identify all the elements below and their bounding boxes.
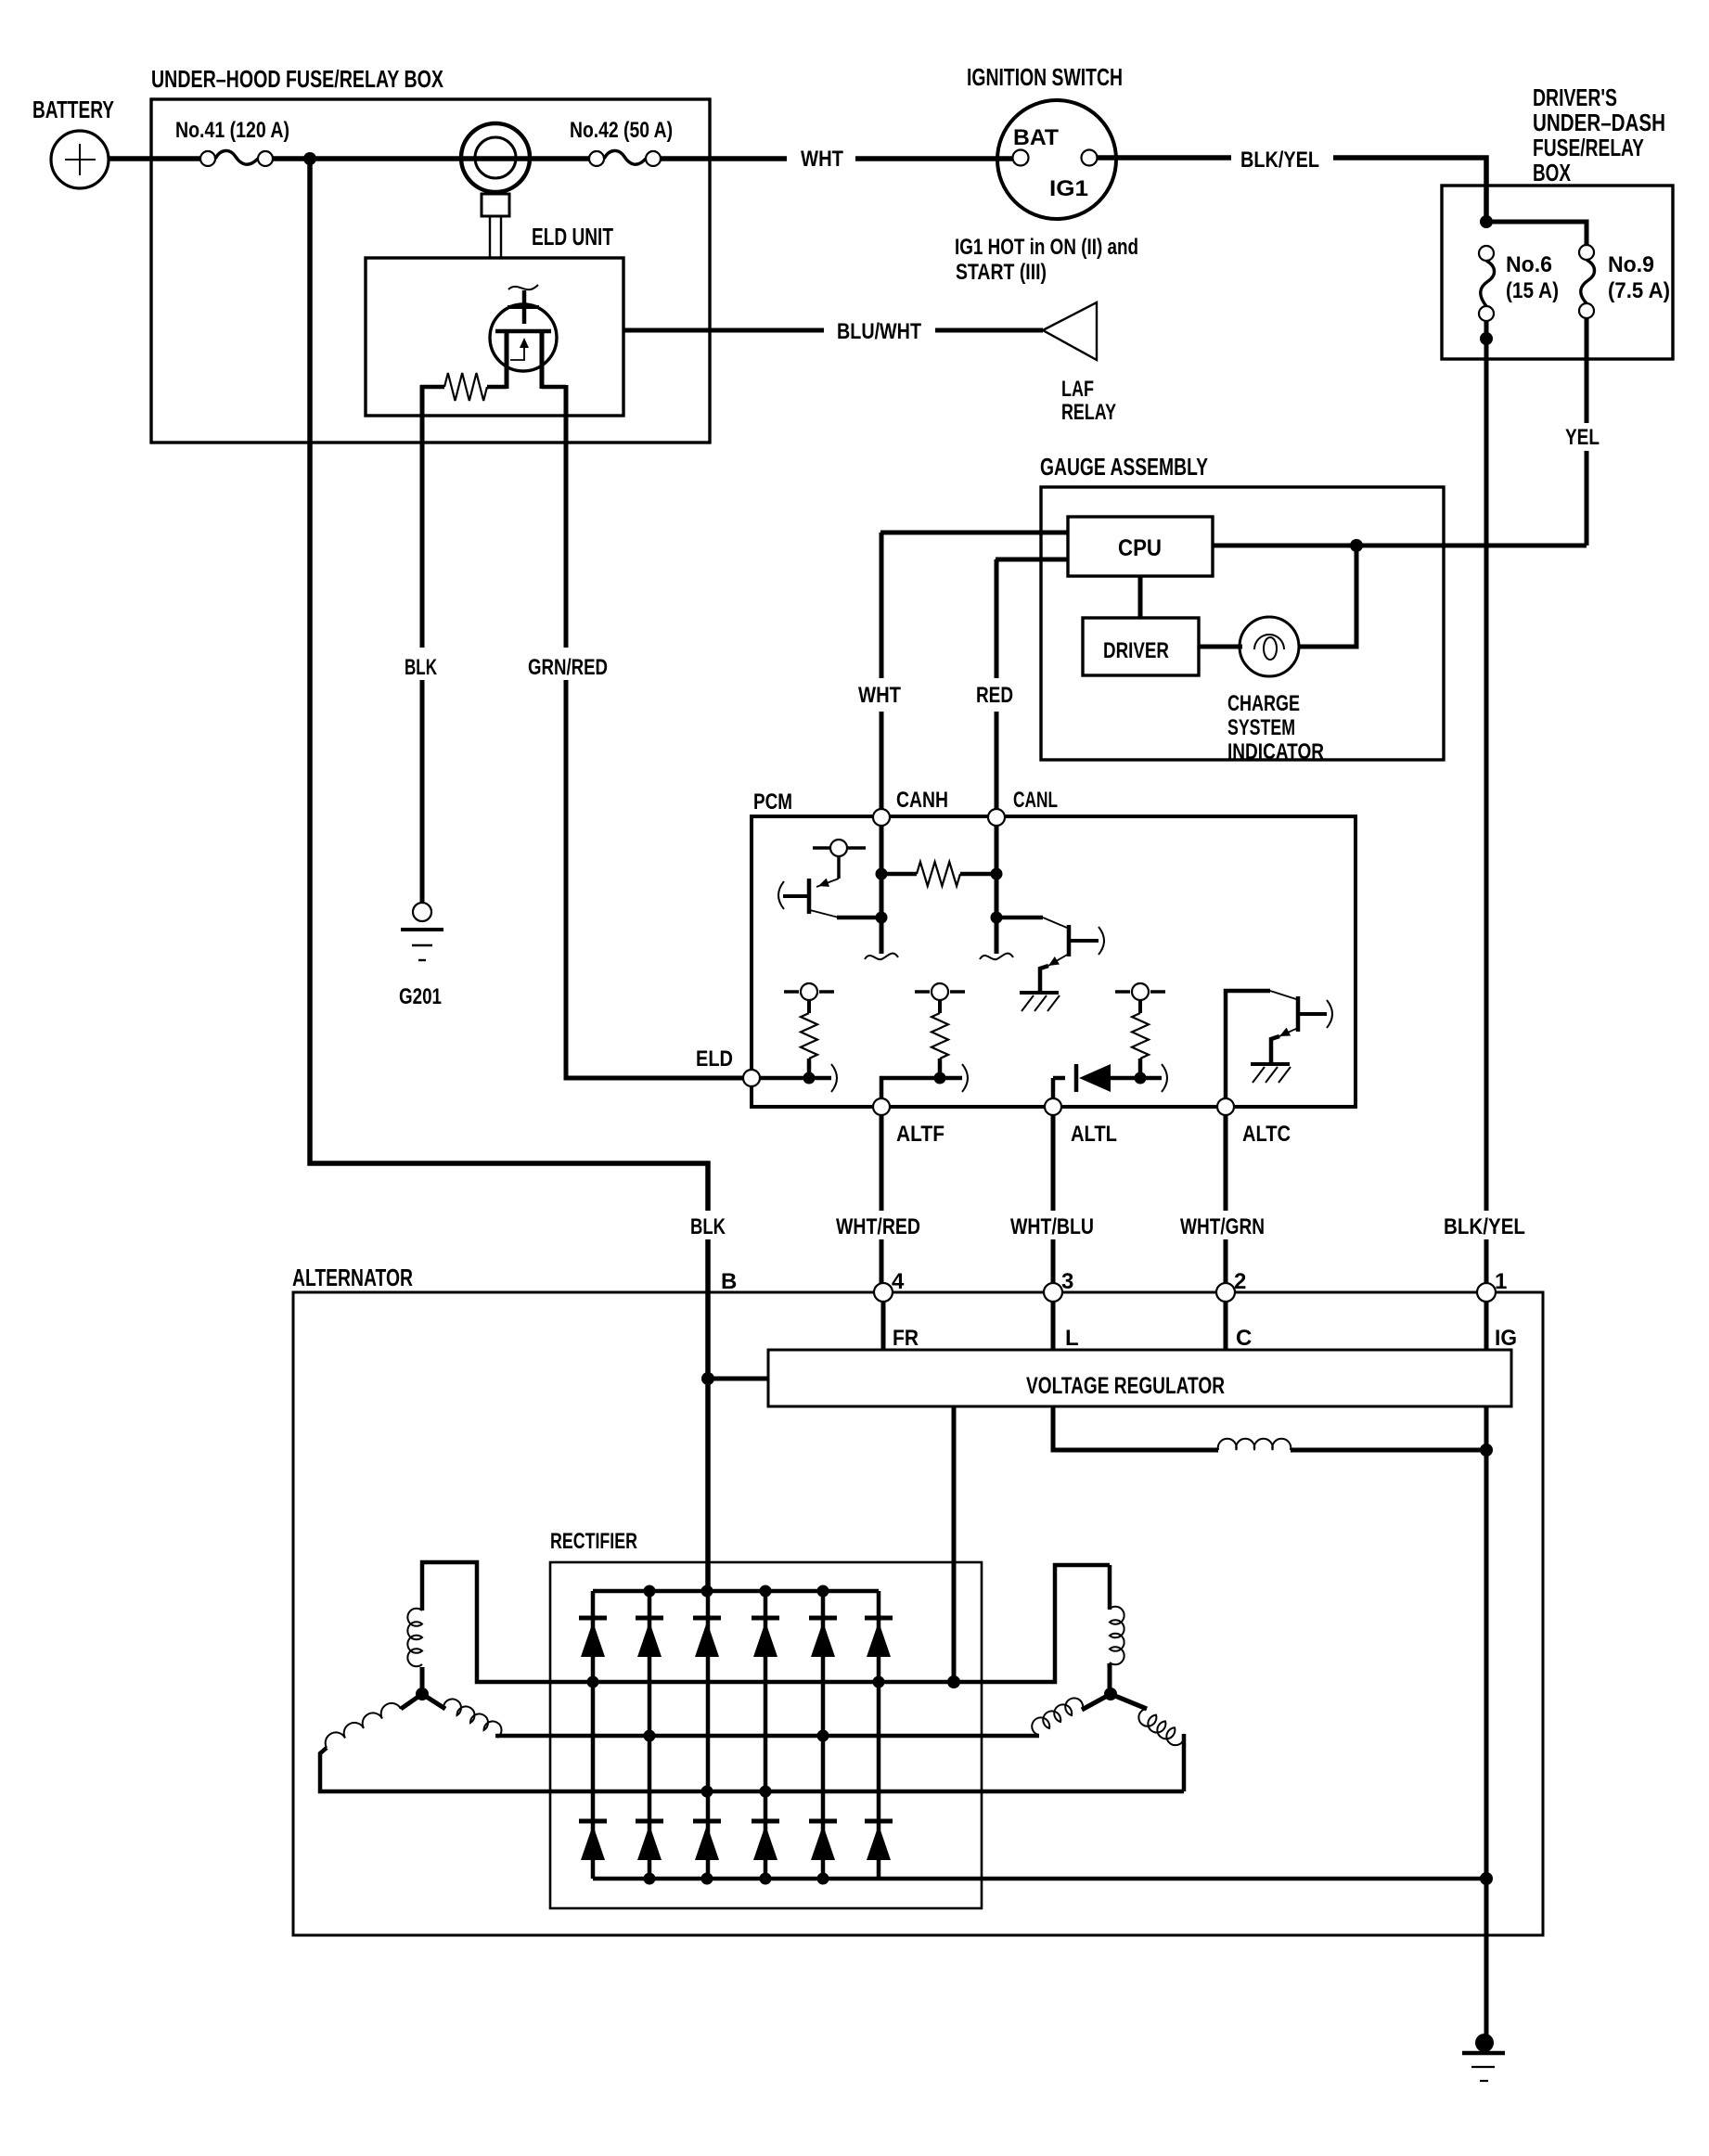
svg-text:L: L bbox=[1065, 1326, 1079, 1351]
transistor Q3 (ALTC) bbox=[1226, 991, 1270, 1097]
svg-text:DRIVER'S: DRIVER'S bbox=[1533, 83, 1617, 111]
transistor Q1 (CANH driver) bbox=[837, 856, 841, 879]
wire regulator to field coil bbox=[1053, 1406, 1218, 1450]
svg-text:(15 A): (15 A) bbox=[1506, 278, 1559, 303]
connector ALTL bbox=[1045, 1098, 1061, 1115]
wire BLK/YEL to driver box corner bbox=[1333, 158, 1486, 219]
svg-text:BLK/YEL: BLK/YEL bbox=[1444, 1214, 1525, 1239]
svg-text:WHT/GRN: WHT/GRN bbox=[1180, 1214, 1265, 1239]
diode D1 at ALTL bbox=[1051, 1078, 1056, 1097]
wire IG line down to ground bus bbox=[1484, 1406, 1489, 1879]
left stator coil C bbox=[401, 1694, 422, 1709]
svg-text:3: 3 bbox=[1061, 1269, 1073, 1294]
svg-text:BLK/YEL: BLK/YEL bbox=[1240, 148, 1319, 173]
svg-text:No.6: No.6 bbox=[1506, 252, 1552, 277]
diode D10 (lower row col 3) bbox=[693, 1819, 721, 1824]
wire field coil to IG line bbox=[1291, 1448, 1486, 1453]
svg-text:1: 1 bbox=[1495, 1269, 1507, 1294]
charge system indicator bulb bbox=[1240, 617, 1299, 676]
diode D5 (upper row col 4) bbox=[752, 1616, 779, 1621]
rectifier diode column 5 bbox=[821, 1591, 826, 1879]
junction dot below fuse No.6 bbox=[1480, 332, 1493, 345]
junction dot bottom bus bbox=[644, 1873, 656, 1885]
driver's under-dash fuse/relay box bbox=[1442, 186, 1673, 359]
wire IG1 to BLK/YEL label bbox=[1097, 155, 1231, 160]
left stator coil A bbox=[407, 1609, 422, 1667]
fuse No.41 (120 A) bbox=[200, 151, 215, 166]
wire fuse No.42 to WHT label bbox=[661, 156, 787, 161]
svg-text:No.42 (50 A): No.42 (50 A) bbox=[570, 118, 673, 143]
ELD MOSFET right leg bbox=[540, 331, 545, 389]
DRIVER box bbox=[1083, 618, 1199, 675]
svg-text:BATTERY: BATTERY bbox=[32, 96, 114, 123]
pin stub C bbox=[1224, 1302, 1228, 1350]
junction dot row3 col3 bbox=[701, 1786, 713, 1798]
wire BLU/WHT to LAF relay bbox=[935, 328, 1043, 333]
diode D7 (upper row col 6) bbox=[865, 1616, 893, 1621]
svg-text:CANH: CANH bbox=[896, 788, 948, 813]
resistor in ELD unit bbox=[487, 385, 507, 390]
right stator coil C bbox=[1182, 1734, 1187, 1791]
wire stator B row (row 2) bbox=[495, 1734, 1039, 1739]
svg-text:DRIVER: DRIVER bbox=[1103, 638, 1169, 663]
diode D13 (lower row col 6) bbox=[865, 1819, 893, 1824]
wire to chassis ground bbox=[1484, 1879, 1489, 2040]
svg-text:VOLTAGE REGULATOR: VOLTAGE REGULATOR bbox=[1026, 1373, 1225, 1399]
pin 3 bbox=[1044, 1283, 1062, 1302]
fuse No.9 (7.5 A) bbox=[1579, 245, 1594, 260]
svg-text:FUSE/RELAY: FUSE/RELAY bbox=[1533, 134, 1644, 161]
connector ELD on PCM edge bbox=[743, 1070, 760, 1086]
svg-text:IGNITION SWITCH: IGNITION SWITCH bbox=[967, 63, 1123, 91]
wire battery junction down to alternator B bbox=[310, 159, 708, 1211]
wire GRN/RED bbox=[564, 416, 569, 648]
ignition switch circle bbox=[997, 100, 1116, 219]
svg-text:BOX: BOX bbox=[1533, 159, 1571, 186]
wire CPU to DRIVER bbox=[1138, 576, 1143, 618]
svg-text:YEL: YEL bbox=[1565, 425, 1600, 450]
wire fuse No.6 down through box bbox=[1484, 321, 1489, 1211]
svg-text:LAF: LAF bbox=[1061, 377, 1094, 402]
junction dot top bus bbox=[644, 1585, 656, 1598]
pin stub L bbox=[1051, 1302, 1056, 1350]
svg-text:ALTL: ALTL bbox=[1071, 1122, 1117, 1147]
svg-text:IG1: IG1 bbox=[1049, 176, 1088, 201]
diode D2 (upper row col 1) bbox=[579, 1616, 607, 1621]
wire battery to fuse No.41 bbox=[109, 156, 201, 161]
connector ALTC bbox=[1217, 1098, 1234, 1115]
gauge assembly box bbox=[1041, 487, 1444, 760]
rectifier top bus bbox=[593, 1589, 879, 1594]
junction dot field-IG bbox=[1480, 1444, 1493, 1457]
svg-text:CANL: CANL bbox=[1013, 788, 1058, 813]
rectifier diode column 3 bbox=[706, 1591, 711, 1879]
svg-text:INDICATOR: INDICATOR bbox=[1227, 739, 1324, 764]
svg-text:BLK: BLK bbox=[690, 1214, 726, 1239]
junction dot above fuse No.6 bbox=[1480, 215, 1493, 228]
pin 2 bbox=[1216, 1283, 1235, 1302]
LAF relay triangle bbox=[1043, 302, 1097, 360]
wire branch to fuse No.9 bbox=[1486, 222, 1587, 245]
svg-text:WHT: WHT bbox=[801, 147, 843, 172]
svg-text:No.41 (120 A): No.41 (120 A) bbox=[175, 118, 289, 143]
pull-up resistor R1 with connector bbox=[784, 990, 799, 994]
junction dot top bus bbox=[701, 1585, 713, 1598]
svg-text:(7.5 A): (7.5 A) bbox=[1608, 278, 1670, 303]
rectifier diode column 2 bbox=[648, 1591, 652, 1879]
svg-text:2: 2 bbox=[1234, 1269, 1246, 1294]
junction dot CPU output bbox=[1350, 539, 1363, 552]
pull-up resistor R3 with connector bbox=[1115, 990, 1130, 994]
diode D4 (upper row col 3) bbox=[693, 1616, 721, 1621]
svg-text:ELD UNIT: ELD UNIT bbox=[532, 223, 613, 250]
pin stub FR bbox=[881, 1302, 886, 1350]
diode D6 (upper row col 5) bbox=[809, 1616, 837, 1621]
wire ELD resistor to BLK bbox=[420, 385, 425, 416]
connector CANL bbox=[988, 809, 1005, 826]
diode D3 (upper row col 2) bbox=[636, 1616, 663, 1621]
junction dot row2 col5 bbox=[817, 1730, 829, 1742]
rectifier diode column 6 bbox=[877, 1591, 881, 1879]
svg-text:ALTERNATOR: ALTERNATOR bbox=[292, 1264, 413, 1291]
svg-text:START (III): START (III) bbox=[956, 260, 1047, 285]
rectifier box bbox=[550, 1562, 982, 1908]
junction dot CANL resistor bbox=[991, 868, 1003, 880]
ground G101 junction dot bbox=[1475, 2034, 1494, 2052]
svg-text:UNDER–DASH: UNDER–DASH bbox=[1533, 109, 1665, 136]
under-hood fuse/relay box bbox=[151, 99, 710, 443]
wire YEL to CPU output corner bbox=[1585, 451, 1589, 545]
svg-text:CPU: CPU bbox=[1118, 535, 1162, 561]
terminal IG1 bbox=[1082, 150, 1098, 166]
ground symbol bbox=[1462, 2051, 1505, 2056]
junction dot row1 col1 bbox=[587, 1676, 599, 1688]
junction dot bottom bus bbox=[817, 1873, 829, 1885]
wire WHT to ignition switch BAT bbox=[855, 156, 1013, 161]
ELD current sensor ring bbox=[461, 123, 530, 192]
wire junction to fuse No.42 (through ELD ring) bbox=[310, 156, 589, 161]
junction dot top bus bbox=[817, 1585, 829, 1598]
svg-text:RELAY: RELAY bbox=[1061, 400, 1116, 425]
pin stub IG bbox=[1484, 1302, 1489, 1350]
svg-text:GAUGE ASSEMBLY: GAUGE ASSEMBLY bbox=[1040, 453, 1208, 481]
wire ELD source to GRN/RED bbox=[542, 385, 566, 390]
junction dot R3-ALTL bbox=[1135, 1072, 1147, 1084]
svg-text:FR: FR bbox=[893, 1326, 919, 1351]
wire BLK bbox=[420, 416, 425, 648]
battery B+ terminal bbox=[51, 131, 109, 188]
ELD MOSFET drain bar bbox=[508, 305, 539, 309]
right stator coil B bbox=[1032, 1698, 1083, 1735]
connector CANH bbox=[873, 809, 890, 826]
wire WHT vertical bbox=[880, 533, 884, 678]
left stator star point bbox=[416, 1688, 429, 1700]
junction dot CANH resistor bbox=[876, 868, 888, 880]
svg-text:RECTIFIER: RECTIFIER bbox=[550, 1529, 637, 1554]
junction dot B to regulator bbox=[701, 1372, 714, 1385]
svg-text:GRN/RED: GRN/RED bbox=[528, 655, 608, 680]
diode D9 (lower row col 2) bbox=[636, 1819, 663, 1824]
wire B tap to regulator bbox=[708, 1377, 768, 1381]
ELD MOSFET left leg bbox=[505, 331, 509, 389]
ground (Q2 emitter) bbox=[1020, 991, 1059, 995]
CPU box bbox=[1068, 517, 1213, 576]
wire DRIVER to indicator bulb bbox=[1199, 645, 1242, 649]
svg-text:IG1 HOT in ON (II) and: IG1 HOT in ON (II) and bbox=[955, 235, 1138, 260]
wire row 1 to right stator A bbox=[954, 1565, 1110, 1682]
svg-text:CHARGE: CHARGE bbox=[1227, 691, 1300, 716]
wire WHT horizontal to CPU bbox=[880, 531, 1068, 535]
pull-up resistor R2 with connector bbox=[915, 990, 930, 994]
svg-text:IG: IG bbox=[1495, 1326, 1517, 1351]
junction dot under-hood bus bbox=[303, 152, 316, 165]
svg-text:B: B bbox=[721, 1269, 737, 1294]
rectifier bottom bus / ground wire bbox=[593, 1877, 1486, 1881]
wire BLU/WHT from ELD unit bbox=[623, 328, 824, 333]
ground G201 symbol bbox=[413, 903, 431, 921]
right stator star point bbox=[1104, 1688, 1117, 1700]
svg-text:ALTC: ALTC bbox=[1242, 1122, 1291, 1147]
wire bulb to junction bbox=[1299, 545, 1356, 647]
voltage regulator box bbox=[768, 1350, 1511, 1406]
junction dot CANL transistor bbox=[991, 912, 1003, 924]
wire stator C row (row 3) bbox=[320, 1748, 1184, 1791]
ELD MOSFET gate bar bbox=[495, 329, 551, 334]
PCM box bbox=[752, 816, 1356, 1107]
resistor between CANH and CANL bbox=[881, 872, 917, 877]
ELD unit box bbox=[366, 258, 623, 416]
junction dot R2-ALTF bbox=[934, 1072, 946, 1084]
rectifier diode column 4 bbox=[764, 1591, 768, 1879]
wire RED horizontal to CPU bbox=[996, 558, 1068, 562]
alternator box bbox=[293, 1292, 1543, 1935]
wire CANH inside PCM bbox=[880, 826, 884, 954]
svg-text:WHT/RED: WHT/RED bbox=[836, 1214, 920, 1239]
ELD MOSFET drain lead bbox=[522, 290, 527, 324]
svg-text:G201: G201 bbox=[399, 984, 442, 1009]
diode D12 (lower row col 5) bbox=[809, 1819, 837, 1824]
svg-text:PCM: PCM bbox=[753, 789, 792, 815]
ELD MOSFET arrow bbox=[520, 338, 529, 348]
wire regulator to rectifier (FR side) bbox=[952, 1406, 957, 1682]
svg-text:4: 4 bbox=[892, 1269, 905, 1294]
junction dot ground bus right bbox=[1480, 1872, 1493, 1885]
wire Q1 collector to CANH bbox=[837, 916, 881, 920]
junction dot CANH transistor bbox=[876, 912, 888, 924]
wire stator A to rectifier row 1 bbox=[422, 1562, 954, 1682]
terminal BAT bbox=[1013, 150, 1029, 166]
junction dot bottom bus bbox=[701, 1873, 713, 1885]
wire RED vertical bbox=[995, 559, 999, 678]
wire CANL inside PCM bbox=[995, 826, 999, 954]
transistor Q2 (CANL driver) bbox=[996, 916, 1043, 920]
junction dot row1 col6 bbox=[873, 1676, 885, 1688]
svg-text:BAT: BAT bbox=[1013, 125, 1059, 150]
svg-text:SYSTEM: SYSTEM bbox=[1227, 715, 1295, 740]
junction dot row2 col2 bbox=[644, 1730, 656, 1742]
ELD sensor body bbox=[482, 194, 509, 216]
svg-text:BLK: BLK bbox=[405, 655, 437, 680]
ELD MOSFET circle bbox=[490, 304, 557, 371]
svg-text:ALTF: ALTF bbox=[896, 1122, 944, 1147]
svg-text:RED: RED bbox=[976, 683, 1013, 708]
svg-text:WHT: WHT bbox=[858, 683, 901, 708]
connector ALTF bbox=[873, 1098, 890, 1115]
wire ALTF to R2 bbox=[881, 1078, 962, 1097]
break symbol below CANH line bbox=[865, 954, 898, 960]
break symbol below CANL line bbox=[980, 954, 1013, 960]
junction dot R1-ELD bbox=[803, 1072, 816, 1084]
diode D8 (lower row col 1) bbox=[579, 1819, 607, 1824]
svg-text:BLU/WHT: BLU/WHT bbox=[837, 319, 921, 344]
wire CPU output to YEL corner bbox=[1213, 544, 1587, 548]
wire WHT/BLU bbox=[1051, 1115, 1056, 1211]
junction dot bottom bus bbox=[760, 1873, 772, 1885]
connector circle top-left transistor bbox=[813, 846, 830, 850]
svg-text:No.9: No.9 bbox=[1608, 252, 1654, 277]
junction dot row1 regulator tap bbox=[947, 1675, 960, 1688]
left stator coil B bbox=[422, 1694, 445, 1709]
svg-text:ELD: ELD bbox=[696, 1046, 733, 1072]
ELD sensor link double line bbox=[489, 216, 491, 258]
svg-text:WHT/BLU: WHT/BLU bbox=[1010, 1214, 1094, 1239]
wire ELD pin to R1 bbox=[760, 1076, 831, 1081]
diode D11 (lower row col 4) bbox=[752, 1819, 779, 1824]
wire fuse No.9 down to YEL label bbox=[1585, 318, 1589, 423]
pin 4 bbox=[874, 1283, 893, 1302]
svg-text:UNDER–HOOD FUSE/RELAY BOX: UNDER–HOOD FUSE/RELAY BOX bbox=[151, 65, 443, 93]
svg-text:C: C bbox=[1236, 1326, 1252, 1351]
junction dot top bus bbox=[760, 1585, 772, 1598]
right stator coil A bbox=[1110, 1607, 1124, 1665]
fuse No.6 (15 A) bbox=[1479, 246, 1494, 261]
ELD MOSFET break curve at drain bbox=[508, 285, 538, 289]
wire WHT/GRN bbox=[1224, 1115, 1228, 1211]
field coil (rotor winding) bbox=[1218, 1439, 1291, 1450]
wire fuse No.41 to junction bbox=[273, 156, 310, 161]
pin 1 bbox=[1477, 1283, 1496, 1302]
junction dot row3 col4 bbox=[760, 1786, 772, 1798]
fuse No.42 (50 A) bbox=[589, 151, 604, 166]
wire WHT/RED bbox=[880, 1115, 884, 1211]
ground (Q3 emitter) bbox=[1251, 1062, 1290, 1066]
rectifier diode column 1 bbox=[591, 1591, 596, 1879]
